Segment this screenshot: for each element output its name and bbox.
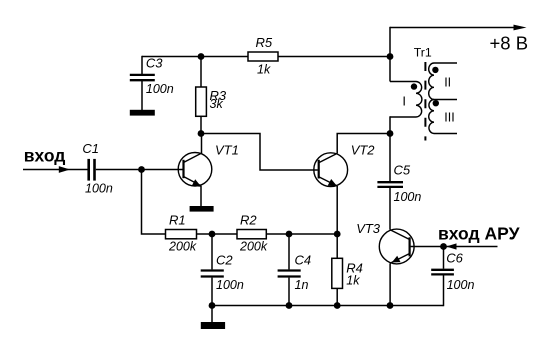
transistor VT2 <box>314 153 348 187</box>
svg-text:1k: 1k <box>346 274 360 288</box>
svg-text:Tr1: Tr1 <box>414 46 432 60</box>
svg-text:200k: 200k <box>239 240 268 254</box>
svg-text:100n: 100n <box>447 278 475 292</box>
svg-text:C4: C4 <box>295 253 312 268</box>
wire C3 top / R3 top to R5 left <box>142 56 248 58</box>
svg-text:I: I <box>402 93 406 108</box>
resistor R2 <box>237 230 266 239</box>
junction node C4 / rail <box>286 302 293 309</box>
svg-text:100n: 100n <box>146 82 174 96</box>
svg-text:100n: 100n <box>394 190 422 204</box>
svg-text:C3: C3 <box>146 56 163 71</box>
wire bottom rail <box>212 305 444 307</box>
wire VT2 collector to transformer node <box>337 134 390 154</box>
junction node C2 / rail <box>209 302 216 309</box>
winding III bottom terminal <box>434 133 457 135</box>
arrow +8V <box>514 25 527 31</box>
wire R3 top lead <box>200 57 202 88</box>
svg-text:100n: 100n <box>85 182 113 196</box>
junction node VT3 base / C6 <box>440 243 447 250</box>
svg-text:C6: C6 <box>446 251 463 266</box>
polarity dot winding I <box>411 83 417 89</box>
svg-text:C2: C2 <box>216 253 233 268</box>
wire C3 top lead <box>141 56 143 75</box>
wire C1 to VT1 base <box>96 169 183 171</box>
resistor R5 <box>248 52 278 61</box>
wire C3 bottom lead to ground <box>141 81 143 111</box>
wire C2 node ground stub <box>211 306 213 323</box>
winding I coil <box>416 82 422 118</box>
arrow AGC input <box>446 243 456 249</box>
svg-text:R1: R1 <box>169 213 186 228</box>
svg-text:3k: 3k <box>210 97 224 111</box>
wire C6 bottom lead to rail <box>443 276 445 307</box>
svg-text:вход: вход <box>24 146 66 166</box>
transformer Tr1 <box>390 62 457 141</box>
ground bottom rail <box>201 322 225 329</box>
wire VT2 emitter to R4 <box>336 186 338 258</box>
svg-text:1n: 1n <box>295 278 309 292</box>
wire VT3 emitter to bottom rail <box>389 263 391 305</box>
wire input to C1 <box>23 169 88 171</box>
arrow input <box>59 166 70 173</box>
capacitor C6 <box>431 270 454 275</box>
junction node R4 / rail <box>334 302 341 309</box>
transistor VT3 <box>379 229 414 264</box>
junction node VT2 collector / winding I <box>387 130 394 137</box>
capacitor C1 <box>89 159 95 181</box>
wire R1 to R2 <box>197 233 238 235</box>
core <box>424 62 426 141</box>
svg-text:+8 В: +8 В <box>490 33 529 54</box>
junction node R2/C4 <box>286 231 293 238</box>
wire C5 top lead <box>389 134 391 183</box>
svg-text:100n: 100n <box>216 278 244 292</box>
junction node C1 / VT1 base <box>138 166 145 173</box>
wire VT1 collector node to VT2 base <box>201 134 318 171</box>
junction node +8V/R5 <box>387 53 394 60</box>
capacitor C4 <box>278 271 301 277</box>
wire C5 bottom lead to VT3 collector <box>389 187 391 230</box>
svg-text:200k: 200k <box>168 240 197 254</box>
svg-text:R2: R2 <box>240 213 257 228</box>
svg-text:VT1: VT1 <box>215 143 239 158</box>
wire node A down to R1 rail <box>142 170 166 235</box>
junction node R1/R2/C2 <box>209 231 216 238</box>
wire R5 right to +8V line <box>278 56 390 58</box>
transistor VT1 <box>178 134 212 207</box>
wire R3 bottom lead <box>200 116 202 134</box>
svg-text:VT3: VT3 <box>356 221 381 236</box>
capacitor C3 <box>130 75 155 80</box>
svg-text:R5: R5 <box>256 35 273 50</box>
junction node VT3 emitter / rail <box>387 302 394 309</box>
wire R2 to VT2 emitter column <box>266 233 337 235</box>
wire C2 top lead <box>211 234 213 269</box>
winding I terminals <box>390 81 416 83</box>
junction node VT2 emitter / R4 <box>334 231 341 238</box>
polarity dot winding III <box>433 100 439 106</box>
junction node R5/R3/C3 <box>198 53 205 60</box>
wire +8V rail <box>390 27 516 29</box>
svg-text:II: II <box>444 75 451 89</box>
ground under C3 <box>130 110 155 116</box>
resistor R1 <box>166 230 197 239</box>
wire C4 bottom lead <box>288 278 290 306</box>
svg-text:1k: 1k <box>257 63 271 77</box>
svg-text:III: III <box>444 111 454 125</box>
wire C4 top lead <box>288 234 290 269</box>
junction node VT1 collector <box>198 130 205 137</box>
resistor R4 <box>332 258 343 288</box>
svg-text:C1: C1 <box>82 141 99 156</box>
wire +8V rail drop to transformer <box>389 27 391 82</box>
capacitor C5 <box>377 182 403 187</box>
resistor R3 <box>196 87 207 116</box>
svg-text:VT2: VT2 <box>351 143 376 158</box>
wire VT3 base to AGC input <box>411 246 498 248</box>
ground under VT1 <box>190 206 214 212</box>
wire R4 bottom lead <box>336 288 338 305</box>
wire C6 top lead <box>443 247 445 269</box>
winding III coil <box>429 100 434 134</box>
polarity dot winding II <box>432 67 438 73</box>
capacitor C2 <box>201 271 224 277</box>
svg-text:вход АРУ: вход АРУ <box>438 224 521 244</box>
winding II coil <box>429 63 434 100</box>
svg-text:C5: C5 <box>394 163 411 178</box>
wire C2 bottom lead <box>211 278 213 306</box>
winding II terminals <box>434 62 457 64</box>
